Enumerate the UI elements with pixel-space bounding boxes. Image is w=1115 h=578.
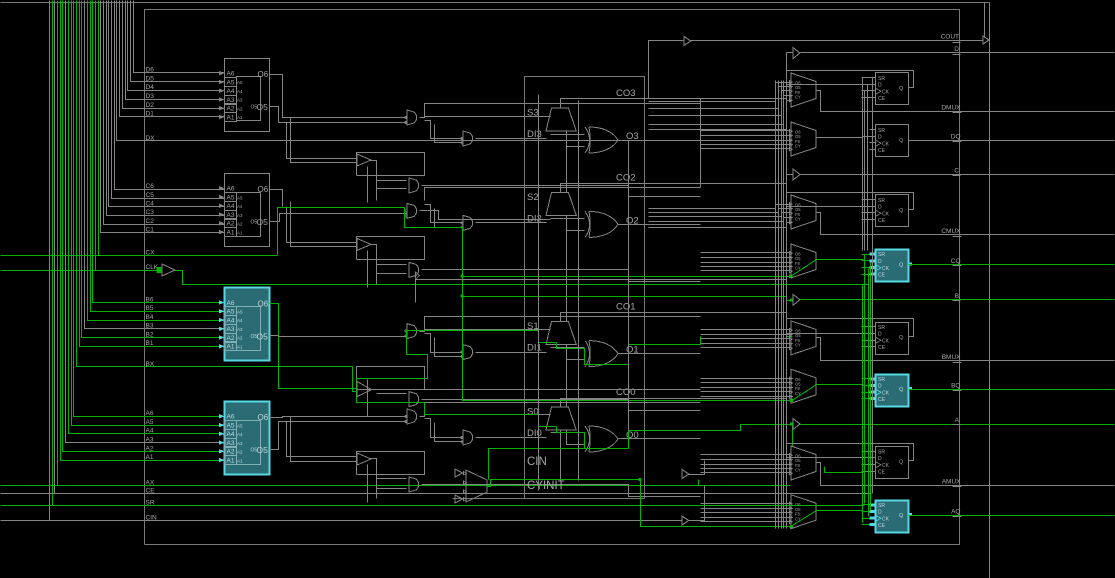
svg-text:A2: A2: [237, 222, 243, 227]
wire CLK distribution: [175, 271, 869, 285]
svg-text:CY: CY: [795, 217, 801, 222]
wire D ffmux pin row 5: [701, 148, 791, 150]
pin label D5: [146, 75, 155, 82]
pin label C6: [146, 183, 155, 190]
wire B outmux pin row 2: [701, 334, 791, 336]
wire A5FF feedback loop: [787, 444, 914, 461]
pin label A6: [146, 410, 154, 417]
net label CMUX: [941, 228, 961, 237]
wire mux gate C second inputs: [425, 205, 463, 228]
wire XOR C output O: [619, 224, 701, 226]
svg-text:O5: O5: [257, 217, 269, 227]
wire CX net up to O5 channel: [278, 208, 792, 401]
svg-text:Q: Q: [899, 262, 904, 268]
wire COUT down right edge: [989, 3, 991, 578]
mux COUTMUX: [790, 195, 817, 229]
svg-text:O0: O0: [626, 430, 639, 441]
svg-text:CX: CX: [146, 249, 156, 256]
svg-text:CK: CK: [882, 142, 890, 148]
wire green column extra: [862, 285, 864, 523]
wire mux BFFMUX selected path: [791, 385, 817, 402]
svg-text:CO3: CO3: [616, 88, 636, 99]
wire gray control vertical D top: [867, 85, 869, 251]
wire DX to mux column: [786, 61, 788, 141]
flip-flop A5FF: [876, 447, 909, 479]
svg-text:SR: SR: [878, 76, 885, 82]
wire carry chain S2-S1: [566, 216, 568, 322]
svg-text:A4: A4: [237, 204, 243, 209]
flip-flop DFF: [876, 125, 909, 157]
wire carry out CO1: [561, 313, 787, 322]
mux BFFMUX: [790, 369, 817, 403]
wire mux AFFMUX output to FF: [817, 511, 876, 512]
wire B5FF pin CE: [862, 346, 876, 348]
wire SR net distribution: [53, 255, 865, 506]
svg-text:A3: A3: [237, 327, 243, 332]
wire mux gate A AX output: [422, 485, 701, 497]
net label CO3: [616, 88, 636, 99]
mux AOUTMUX: [790, 446, 817, 480]
svg-text:D: D: [878, 383, 882, 389]
svg-text:CE: CE: [878, 218, 886, 224]
junction green spine C: [461, 275, 464, 278]
buffer CLK BUFG: [157, 264, 176, 276]
svg-text:A4: A4: [237, 89, 243, 94]
wire carry out CO0: [561, 399, 787, 407]
wire channel C signal row 3: [649, 216, 782, 218]
wire green around XOR0: [557, 425, 792, 449]
wire LUT C O5 to mux gate: [270, 214, 407, 222]
wire XOR B inputs: [551, 345, 585, 360]
wire mux gate B O6 branch to outmux: [425, 317, 701, 330]
svg-text:AX: AX: [146, 479, 155, 486]
XOR gate B sum: [585, 341, 618, 367]
mux CFFMUX: [790, 244, 817, 278]
net label A output: [953, 417, 961, 425]
wire B5FF pin D: [787, 333, 876, 335]
wire A5FF pin SR: [862, 451, 876, 453]
svg-text:D: D: [954, 46, 959, 53]
svg-text:CK: CK: [882, 391, 890, 397]
svg-text:O6: O6: [258, 70, 269, 79]
carry mux MUXCY B: [546, 322, 576, 345]
svg-text:CO1: CO1: [616, 302, 636, 313]
wire D ffmux pin row 4: [701, 144, 791, 146]
svg-text:S3: S3: [527, 108, 539, 119]
net label CQ: [951, 258, 962, 266]
wire mux BFFMUX output to FF: [817, 385, 876, 386]
svg-text:D: D: [878, 204, 882, 210]
svg-text:C: C: [954, 168, 959, 175]
pin label DIB: [527, 343, 542, 354]
pin label B6: [146, 296, 154, 303]
wire green S1 path: [357, 355, 557, 427]
wire LUT D O6 to mux gate: [270, 75, 407, 118]
wire CFF pin CK stub: [862, 267, 870, 269]
mux gate B DI select (2-input): [461, 345, 473, 360]
svg-text:D3: D3: [146, 93, 155, 100]
wire DQ output net: [909, 140, 1115, 142]
svg-text:A6: A6: [227, 300, 235, 307]
svg-text:A5: A5: [227, 79, 235, 86]
wire input net C1: [101, 1, 225, 233]
svg-text:CE: CE: [878, 148, 886, 154]
net label B output: [953, 293, 961, 301]
wire CO3 to COUT buffer: [645, 41, 685, 99]
pin label AX: [146, 479, 155, 486]
net label CO0: [616, 387, 636, 398]
wire left edge feed CE: [1, 493, 55, 495]
wire D outmux pin stub 3: [782, 90, 791, 92]
svg-text:DQ: DQ: [951, 134, 961, 141]
pin label DX: [146, 135, 156, 142]
net label CO1: [616, 302, 636, 313]
svg-text:DX: DX: [146, 135, 156, 142]
wire B outmux pin row 5: [701, 347, 791, 349]
buffer COUT pad: [983, 3, 989, 45]
wire XOR B output O: [619, 353, 701, 355]
pin label D6: [146, 67, 155, 74]
wire D5FF pin CE: [862, 97, 876, 99]
wire green S1 riser: [407, 331, 557, 355]
svg-text:BQ: BQ: [951, 383, 960, 390]
pin label A1: [146, 454, 154, 461]
svg-text:CYINIT: CYINIT: [527, 480, 565, 492]
wire C ffmux pin row 4: [701, 266, 791, 268]
wire mux AFFMUX selected path: [791, 511, 817, 527]
wire DFF pin CE: [870, 149, 876, 151]
svg-text:A5: A5: [227, 309, 235, 316]
wire net stub with arrow: [416, 272, 420, 303]
wire D output net: [801, 52, 1115, 54]
svg-text:D: D: [878, 82, 882, 88]
wire carry chain S3-S2: [566, 131, 568, 193]
wire buffer B to AX gate: [377, 394, 407, 403]
wire A output net: [801, 424, 1115, 426]
wire C5FF pin D: [787, 206, 876, 208]
wire left edge feed CLK: [1, 270, 96, 272]
svg-text:CE: CE: [878, 345, 886, 351]
svg-text:A1: A1: [237, 345, 243, 350]
wire C5FF pin CE: [862, 219, 876, 221]
svg-text:A6: A6: [227, 414, 235, 421]
mux CYINIT select: [455, 469, 487, 503]
svg-text:A6: A6: [146, 410, 154, 417]
wire C5FF feedback loop: [787, 193, 914, 210]
svg-text:DMUX: DMUX: [941, 105, 961, 112]
svg-text:D5: D5: [146, 75, 155, 82]
wire input net CX: [99, 1, 278, 256]
wire mux CFFMUX selected path: [791, 260, 817, 277]
wire C outmux pin stub 3: [782, 212, 791, 214]
wire B ffmux pin row 2: [701, 382, 791, 384]
net label CIN: [527, 456, 547, 468]
wire routing loop C: [357, 237, 425, 288]
junction green B buffer: [790, 298, 793, 301]
pin label CIN: [146, 514, 158, 521]
wire LUT B O6 highlighted net: [270, 304, 357, 389]
svg-text:CK: CK: [882, 212, 890, 218]
junction green C FF mux pin: [789, 275, 792, 278]
wire mux gate A S output: [420, 415, 551, 417]
XOR gate A sum: [585, 426, 618, 452]
mux DOUTMUX: [790, 73, 817, 107]
svg-text:O6: O6: [258, 299, 269, 308]
net label DQ: [951, 134, 962, 142]
wire CLK vertical: [868, 269, 870, 517]
net label COUT: [941, 34, 961, 43]
pin label SA: [527, 407, 539, 418]
wire left edge feed AX: [1, 485, 58, 487]
wire mux gate A second inputs: [425, 419, 463, 442]
svg-text:SR: SR: [878, 252, 885, 258]
svg-text:CQ: CQ: [951, 258, 961, 265]
wire input net D2: [123, 1, 225, 109]
wire D outmux pin stub 5: [787, 100, 791, 102]
pin label C4: [146, 201, 155, 208]
net label O3: [626, 131, 639, 142]
svg-text:A3: A3: [237, 213, 243, 218]
wire BFF pin SR stub: [862, 378, 870, 380]
svg-text:A5: A5: [227, 194, 235, 201]
wire channel C signal row 2: [649, 212, 779, 214]
svg-text:A5: A5: [237, 80, 243, 85]
wire C outmux pin stub 1: [776, 204, 791, 206]
net label D output: [953, 46, 961, 55]
junction green A buffer: [790, 422, 793, 425]
pin label A2: [146, 445, 154, 452]
wire CYINIT to A group mux: [641, 480, 791, 527]
wire input net D3: [126, 1, 225, 100]
junction CYINIT: [639, 478, 642, 481]
wire BFF pin CE stub: [862, 398, 870, 400]
wire input net A3: [66, 1, 225, 443]
wire CFF pin D stub: [862, 260, 870, 262]
buffer CIN: [682, 516, 689, 525]
pin label CE: [146, 487, 156, 494]
wire input net D4: [128, 1, 225, 91]
svg-text:A6: A6: [227, 71, 235, 78]
pin label BX: [146, 361, 155, 368]
wire XOR A output O: [619, 438, 701, 440]
wire COUT net: [691, 40, 983, 42]
svg-text:O5: O5: [257, 445, 269, 455]
wire D direct buffer input: [787, 52, 793, 54]
net label BQ: [951, 383, 961, 391]
svg-text:CE: CE: [146, 487, 156, 494]
wire input net AX: [58, 1, 791, 486]
wire CIN to carry: [689, 486, 705, 521]
wire D outmux pin stub 2: [779, 86, 791, 88]
flip-flop C5FF: [876, 195, 909, 227]
wire input net B5: [91, 1, 225, 312]
wire C output net: [801, 174, 1115, 176]
junction green B FF mux pin: [790, 399, 793, 402]
wire input net B1: [80, 1, 225, 347]
pin label D2: [146, 102, 155, 109]
wire carry chain S1-S0: [566, 345, 568, 407]
net label AQ: [951, 509, 961, 517]
wire carry out CO3: [561, 99, 787, 109]
wire green CYINIT riser: [489, 449, 585, 480]
svg-text:O6: O6: [258, 413, 269, 422]
svg-text:Q: Q: [899, 460, 904, 466]
net label BMUX: [942, 354, 962, 363]
wire input net B6: [93, 1, 225, 303]
pin label CX: [146, 249, 156, 256]
mux gate D S select (2-input): [405, 110, 417, 125]
wire mux gate D DI output: [476, 138, 547, 140]
svg-text:SR: SR: [878, 198, 885, 204]
mux gate D AX select: [409, 178, 419, 193]
svg-text:Q: Q: [899, 208, 904, 214]
svg-text:A5: A5: [227, 422, 235, 429]
wire D ffmux pin row 3: [701, 140, 791, 142]
wire input net D1: [120, 1, 225, 117]
svg-text:DI0: DI0: [527, 428, 542, 439]
wire D5FF pin CK: [862, 90, 876, 92]
svg-text:B2: B2: [146, 331, 154, 338]
wire carry interior vertical 3: [628, 141, 630, 431]
svg-text:O2: O2: [626, 215, 639, 226]
wire left edge feed SR: [1, 505, 53, 507]
pin label SC: [527, 192, 539, 203]
wire routing column vertical 2: [778, 81, 780, 529]
wire D5FF pin SR: [862, 77, 876, 79]
wire mux gate D S output: [420, 117, 551, 118]
svg-text:Q: Q: [899, 387, 904, 393]
svg-text:DI1: DI1: [527, 343, 542, 354]
mux AFFMUX: [790, 495, 817, 529]
svg-text:A: A: [955, 417, 960, 424]
buffer A direct output: [793, 419, 800, 430]
wire green column D path: [870, 263, 872, 511]
wire A ffmux pin row 4: [701, 517, 791, 519]
wire gray control vertical SR top: [862, 78, 864, 251]
svg-text:SR: SR: [878, 325, 885, 331]
svg-text:A1: A1: [227, 230, 235, 237]
wire input net D6: [134, 1, 225, 73]
wire B output net: [801, 299, 1115, 301]
wire channel C signal row 5: [649, 227, 787, 229]
wire A outmux pin row 3: [701, 464, 791, 466]
mux gate A AX select: [409, 477, 419, 492]
net label CO2: [616, 172, 636, 183]
net label O1: [626, 345, 639, 356]
svg-text:CE: CE: [878, 470, 886, 476]
pin label SR: [146, 499, 155, 506]
wire channel D signal row 5: [649, 129, 787, 131]
svg-text:C2: C2: [146, 218, 155, 225]
svg-text:A3: A3: [237, 98, 243, 103]
net label AMUX: [942, 479, 962, 487]
wire A ffmux pin row 1: [701, 503, 791, 505]
pin label B5: [146, 305, 154, 312]
svg-text:D2: D2: [146, 102, 155, 109]
pin label A3: [146, 437, 154, 444]
carry mux MUXCY C: [546, 192, 576, 215]
wire B ffmux pin row 4: [701, 391, 791, 393]
svg-text:D4: D4: [146, 84, 155, 91]
svg-text:B3: B3: [146, 323, 154, 330]
wire buffer C output down: [371, 245, 377, 285]
wire D5FF pin D: [787, 84, 876, 86]
svg-text:D: D: [878, 134, 882, 140]
svg-text:CO0: CO0: [616, 387, 636, 398]
wire LUT A O6 to mux gate: [270, 417, 407, 418]
wire carry out CO2: [561, 184, 787, 193]
wire input net C2: [104, 1, 225, 225]
LUT B6LUT: [219, 288, 270, 361]
mux gate A S select (2-input): [405, 409, 417, 424]
wire input net DX: [117, 1, 787, 141]
svg-text:A4: A4: [227, 431, 235, 438]
buffer carry aux: [682, 470, 689, 479]
junction green A FF mux pin: [790, 525, 793, 528]
wire D ffmux pin row 2: [701, 135, 791, 137]
svg-text:A3: A3: [146, 437, 154, 444]
wire C outmux pin stub 2: [779, 208, 791, 210]
svg-text:BX: BX: [146, 361, 155, 368]
svg-text:C5: C5: [146, 192, 155, 199]
svg-text:A5: A5: [237, 309, 243, 314]
wire channel D signal row 1: [649, 101, 776, 103]
svg-text:O5: O5: [257, 331, 269, 341]
wire routing loop B: [357, 367, 425, 417]
svg-text:O3: O3: [626, 131, 639, 142]
wire B outmux pin row 4: [701, 343, 791, 345]
wire D ffmux pin row 1: [701, 130, 791, 132]
wire C ffmux pin row 1: [701, 252, 791, 254]
LUT A6LUT: [219, 402, 270, 475]
svg-text:A1: A1: [237, 458, 243, 463]
wire AFF pin SR stub: [862, 504, 870, 506]
svg-text:Q: Q: [899, 138, 904, 144]
svg-text:A4: A4: [237, 318, 243, 323]
mux gate B AX select: [409, 392, 419, 407]
wire green A outmux link: [825, 467, 863, 473]
net label C output: [953, 168, 961, 176]
wire green branch to C FF mux: [463, 276, 791, 278]
wire input net A6: [74, 1, 225, 417]
pin label CLK: [146, 264, 159, 271]
wire A5FF pin CK: [862, 464, 876, 466]
wire CFF pin SR stub: [862, 254, 870, 256]
wire buffer A output down: [371, 459, 377, 499]
pin label C1: [146, 227, 155, 234]
svg-text:O1: O1: [626, 345, 639, 356]
wire LUT C O6 down: [270, 190, 283, 207]
wire mux DFFMUX output to FF: [817, 137, 876, 138]
wire mux gate B second inputs: [425, 334, 463, 357]
svg-text:S2: S2: [527, 192, 539, 203]
pin label D3: [146, 93, 155, 100]
pin label DIA: [527, 428, 542, 439]
svg-text:A1: A1: [227, 114, 235, 121]
pin label C2: [146, 218, 155, 225]
wire LUT D outputs to buffer: [287, 118, 357, 163]
svg-text:A3: A3: [227, 326, 235, 333]
pin label B2: [146, 331, 154, 338]
wire CQ output net: [909, 264, 1115, 266]
mux BOUTMUX: [790, 321, 817, 355]
svg-text:A2: A2: [227, 221, 235, 228]
svg-text:A3: A3: [237, 441, 243, 446]
carry block CARRY4 outline: [453, 77, 645, 499]
wire input net B3: [85, 1, 225, 329]
svg-text:A3: A3: [227, 212, 235, 219]
svg-text:SR: SR: [878, 449, 885, 455]
